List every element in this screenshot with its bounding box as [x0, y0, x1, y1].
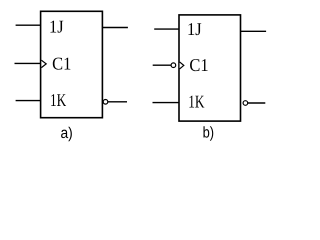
inversion bubble on Q-bar output of a: [103, 100, 108, 105]
inversion bubble on Q-bar output of b: [243, 101, 248, 106]
svg-text:1K: 1K: [188, 91, 204, 111]
svg-text:1J: 1J: [49, 17, 64, 37]
wire: Q output of b: [241, 30, 267, 32]
svg-text:C1: C1: [189, 55, 208, 75]
svg-text:C1: C1: [52, 54, 71, 74]
dynamic-input triangle on C1 of a: [41, 60, 46, 67]
wire: Q output of a: [102, 27, 128, 29]
wire: Q-bar output of a: [108, 101, 127, 103]
inversion bubble on C1 input of b: [171, 63, 176, 68]
wire: 1K input of b: [153, 102, 180, 104]
flip-flop a) outline box: [41, 11, 103, 117]
wire: Q-bar output of b: [248, 102, 265, 104]
wire: 1J input of a: [16, 24, 41, 26]
svg-text:b): b): [203, 125, 215, 142]
wire: 1J input of b: [154, 28, 179, 30]
flip-flop b) outline box: [179, 15, 241, 121]
svg-text:a): a): [61, 125, 73, 142]
wire: 1K input of a: [16, 100, 41, 102]
dynamic-input triangle on C1 of b: [180, 62, 184, 69]
wire: C1 clock input of a: [15, 62, 41, 64]
svg-text:1K: 1K: [50, 90, 66, 110]
svg-text:1J: 1J: [187, 19, 202, 39]
wire: C1 clock input of b: [153, 64, 171, 66]
